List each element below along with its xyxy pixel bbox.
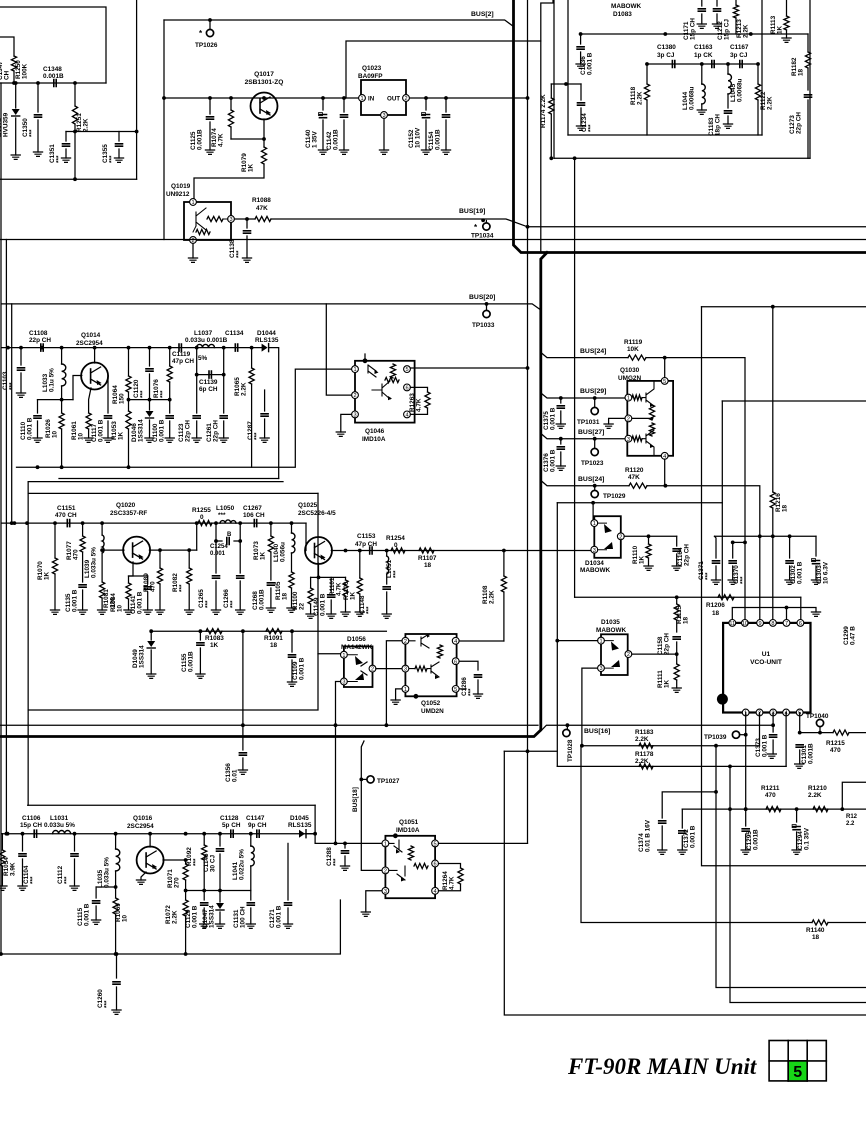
- capacitor C1350: [37, 83, 39, 112]
- svg-text:C1128: C1128: [220, 815, 239, 822]
- capacitor C1375: [560, 398, 562, 403]
- capacitor C1371: [715, 536, 717, 558]
- wire Q1014 emitter: [89, 388, 91, 413]
- svg-text:RLS135: RLS135: [288, 822, 312, 829]
- wire node rail y83: [0, 82, 106, 84]
- wire row2 box left edge: [27, 482, 29, 806]
- wire BUS[2]: [164, 20, 514, 27]
- svg-text:0: 0: [394, 542, 398, 549]
- wire row2 box: [28, 492, 318, 494]
- capacitor C1266: [239, 541, 241, 573]
- ground Q1046: [336, 432, 345, 436]
- svg-text:3: 3: [384, 889, 387, 895]
- svg-text:***: ***: [9, 382, 16, 390]
- svg-text:***: ***: [333, 858, 340, 866]
- wire C1139 bypass: [197, 348, 224, 375]
- svg-text:L1050: L1050: [216, 505, 235, 512]
- svg-text:10: 10: [742, 621, 748, 627]
- wire x557 vertical: [556, 503, 558, 767]
- resistor R1211 series: [766, 807, 781, 812]
- test point TP1029: [593, 484, 597, 488]
- svg-text:0.001 B: 0.001 B: [550, 449, 557, 472]
- svg-text:BA09FP: BA09FP: [358, 73, 383, 80]
- svg-text:***: ***: [193, 858, 200, 866]
- wire x730 vertical: [730, 766, 866, 1002]
- svg-text:6: 6: [799, 621, 802, 627]
- svg-text:1: 1: [353, 367, 356, 373]
- pin 8 U1: [770, 620, 777, 627]
- wire top bracket x541: [541, 0, 553, 41]
- svg-text:2.2: 2.2: [846, 821, 855, 827]
- capacitor C1108: [41, 344, 43, 351]
- svg-text:15p CH: 15p CH: [20, 822, 42, 829]
- wire inside Q1030: [632, 417, 652, 419]
- wire R1178 line: [557, 765, 786, 767]
- svg-text:R1088: R1088: [252, 197, 271, 204]
- capacitor C1236: [580, 34, 582, 44]
- wire caps cluster rail y536: [715, 535, 817, 537]
- svg-text:0.001 B: 0.001 B: [98, 419, 105, 442]
- capacitor C1376: [560, 439, 562, 444]
- svg-text:TP1023: TP1023: [581, 460, 604, 467]
- wire D1034 right branch: [624, 535, 677, 537]
- diodes inside D1035: [604, 641, 613, 669]
- wire D1035 pin3 column: [582, 668, 601, 746]
- ground Q1051 pin3: [361, 912, 370, 916]
- svg-text:0.033u 5%: 0.033u 5%: [104, 857, 111, 888]
- wire pin5 column: [799, 713, 801, 733]
- svg-text:1K: 1K: [639, 555, 646, 564]
- svg-text:BUS[19]: BUS[19]: [459, 208, 485, 215]
- wire BUS[24] lower: [542, 481, 630, 486]
- resistor R1115: [676, 597, 678, 604]
- svg-text:D1044: D1044: [257, 330, 276, 337]
- pin 11 U1: [729, 620, 736, 627]
- ground C1374: [658, 850, 667, 854]
- svg-text:OUT: OUT: [387, 96, 400, 103]
- svg-text:***: ***: [366, 606, 373, 614]
- wire BUS[19]: [271, 219, 866, 227]
- svg-text:5: 5: [454, 687, 457, 693]
- svg-text:5: 5: [793, 1064, 802, 1081]
- wire Q1016 emitter ground: [141, 872, 146, 880]
- ground L1044: [697, 110, 706, 114]
- pin 4 U1: [783, 709, 790, 716]
- svg-text:18: 18: [270, 642, 278, 649]
- wire vertical x702: [702, 307, 866, 866]
- pin 10 U1: [742, 620, 749, 627]
- resistor inside Q1030 b: [632, 436, 642, 441]
- svg-text:4: 4: [454, 639, 457, 645]
- svg-text:B: B: [227, 532, 232, 538]
- svg-text:1K: 1K: [777, 25, 784, 34]
- wire thick bus vertical and bottom: [0, 253, 547, 737]
- svg-text:5p CH: 5p CH: [222, 822, 241, 829]
- resistor R1255: [198, 521, 212, 526]
- resistor R1077: [82, 523, 84, 536]
- wire x580 vertical to R1140: [581, 746, 812, 923]
- svg-text:0.056u: 0.056u: [280, 542, 287, 562]
- wire D1034 pin1 up: [592, 503, 594, 520]
- ground C1149: [327, 614, 336, 618]
- capacitor C1149: [330, 577, 332, 592]
- svg-text:***: ***: [30, 876, 37, 884]
- svg-text:470 CH: 470 CH: [55, 512, 77, 519]
- svg-text:0.001B: 0.001B: [435, 129, 442, 150]
- svg-text:Q1025: Q1025: [298, 502, 318, 509]
- wire Q1051 pin3 ground: [366, 891, 382, 912]
- capacitor C1151: [67, 520, 69, 527]
- svg-text:1K: 1K: [118, 431, 125, 440]
- svg-text:TP1028: TP1028: [567, 739, 574, 762]
- wire Q1052 pin6 to C1286: [459, 661, 478, 670]
- svg-text:0.1u 5%: 0.1u 5%: [49, 368, 56, 392]
- resistor inside Q1030 a: [632, 395, 642, 400]
- svg-text:22p CH: 22p CH: [29, 337, 51, 344]
- svg-text:***: ***: [254, 432, 261, 440]
- svg-text:C1106: C1106: [22, 815, 41, 822]
- resistor R1069: [113, 898, 118, 914]
- svg-text:1p CK: 1p CK: [694, 52, 713, 59]
- svg-text:CH: CH: [4, 70, 11, 80]
- ground C1152: [421, 150, 430, 154]
- wire caps row y64: [647, 63, 758, 65]
- svg-text:0.1 35V: 0.1 35V: [804, 827, 811, 850]
- resistor R1111: [676, 654, 678, 664]
- wire to Q1019: [194, 164, 264, 199]
- wire node y131 link: [66, 131, 137, 133]
- svg-text:2: 2: [627, 417, 630, 423]
- ground Q1052 pin1: [391, 700, 400, 704]
- svg-text:D1045: D1045: [290, 815, 309, 822]
- wire Q1046 pin3 ground: [341, 414, 352, 432]
- svg-text:3: 3: [593, 548, 596, 554]
- resistor inside Q1030 c: [649, 405, 654, 420]
- wire Q1016 collector: [163, 859, 186, 861]
- wire Q1030 pin4 down: [664, 459, 666, 486]
- resistor R1082: [188, 550, 190, 568]
- svg-text:5: 5: [434, 842, 437, 848]
- svg-text:Q1052: Q1052: [421, 700, 441, 707]
- svg-text:***: ***: [140, 390, 147, 398]
- inductor L1045: [727, 64, 729, 74]
- svg-text:18: 18: [282, 592, 289, 600]
- resistor R1263 loop: [410, 387, 427, 392]
- svg-text:R12: R12: [846, 814, 858, 820]
- wire R1120 to pin9 column: [647, 486, 760, 623]
- wire Q1020 collector rail: [149, 549, 196, 551]
- ground C1375: [556, 424, 565, 428]
- capacitor C1374: [659, 821, 666, 823]
- wire top-left box outline: [0, 7, 106, 83]
- diode D1046: [149, 400, 151, 410]
- wire Q1052 pin2 feed: [386, 641, 402, 725]
- svg-text:6: 6: [405, 386, 408, 392]
- wire Q1017 emitter node: [231, 138, 264, 140]
- ground C1271: [283, 924, 292, 928]
- sheet index active cell 5: [788, 1061, 807, 1081]
- svg-text:0.001 B: 0.001 B: [299, 657, 306, 680]
- wire D1044 to lower rail: [269, 348, 279, 479]
- ground C1288: [340, 866, 349, 870]
- sheet index grid: [769, 1041, 826, 1082]
- svg-text:4.7K: 4.7K: [218, 133, 225, 147]
- capacitor C1119 series: [179, 344, 181, 351]
- inductor L1033: [61, 348, 63, 364]
- capacitor C1268: [267, 583, 274, 585]
- capacitor C1112: [74, 834, 76, 851]
- ground C1103: [16, 393, 25, 397]
- resistor R1073: [270, 523, 272, 536]
- svg-text:C1134: C1134: [225, 330, 244, 337]
- svg-text:***: ***: [64, 876, 71, 884]
- diode D1049: [150, 631, 152, 640]
- capacitor C1348: [54, 80, 56, 87]
- resistor R1206 series: [718, 595, 734, 600]
- svg-text:R1210: R1210: [808, 785, 827, 792]
- svg-text:C1254: C1254: [210, 544, 228, 550]
- svg-text:Q1020: Q1020: [116, 502, 136, 509]
- ground R1081: [98, 610, 107, 614]
- svg-text:18: 18: [683, 616, 690, 624]
- svg-text:MABOWK: MABOWK: [580, 567, 611, 574]
- wire pin3 column C1373: [772, 713, 774, 733]
- wire BUS20 to Q1046 pin2: [326, 304, 351, 395]
- wire BUS[27]: [542, 434, 625, 439]
- ground R1111: [672, 688, 681, 692]
- capacitor C1261: [223, 375, 225, 413]
- svg-text:C1167: C1167: [730, 44, 749, 51]
- capacitor C1104: [22, 834, 24, 851]
- svg-text:BUS[29]: BUS[29]: [580, 388, 606, 395]
- svg-text:1K: 1K: [260, 551, 267, 560]
- svg-text:9p CH: 9p CH: [248, 822, 267, 829]
- svg-text:Q1017: Q1017: [254, 71, 274, 78]
- wire left vertical 3: [11, 304, 13, 523]
- svg-text:18: 18: [812, 934, 820, 941]
- test point TP1033: [486, 304, 488, 310]
- inductor L1035: [115, 834, 117, 849]
- svg-text:1K: 1K: [664, 679, 671, 688]
- resistor inside Q1046 b: [385, 377, 399, 382]
- resistor R1106: [359, 551, 361, 579]
- svg-text:5: 5: [663, 379, 666, 385]
- svg-text:TP1029: TP1029: [603, 493, 626, 500]
- ground C1268: [266, 608, 275, 612]
- ground D1047: [215, 924, 224, 928]
- test point TP1027: [359, 778, 363, 782]
- svg-text:***: ***: [230, 600, 237, 608]
- capacitor C1115: [95, 887, 97, 898]
- svg-text:2: 2: [404, 639, 407, 645]
- svg-text:10: 10: [52, 430, 59, 438]
- svg-text:FT-90R MAIN Unit: FT-90R MAIN Unit: [567, 1054, 757, 1079]
- svg-text:C1151: C1151: [57, 505, 76, 512]
- resistor R1084: [126, 583, 131, 599]
- wire C1115 branch: [96, 886, 116, 888]
- capacitor C1158: [673, 637, 680, 639]
- capacitor C1380: [672, 61, 674, 68]
- svg-text:2.2K: 2.2K: [635, 758, 649, 765]
- svg-text:11: 11: [729, 621, 735, 627]
- wire from block bottom to trunk: [574, 158, 576, 597]
- svg-text:R1119: R1119: [624, 339, 643, 346]
- svg-text:R1183: R1183: [635, 729, 654, 736]
- svg-text:0.033u 0.001B: 0.033u 0.001B: [185, 337, 228, 344]
- svg-text:Q1023: Q1023: [362, 65, 382, 72]
- wire row1 lower rail: [17, 369, 353, 467]
- capacitor C1146: [219, 834, 221, 846]
- wire box rail y805: [28, 804, 315, 806]
- wire Q1014 base link: [73, 376, 82, 400]
- capacitor C1288: [344, 843, 346, 848]
- svg-text:IMD10A: IMD10A: [396, 827, 420, 834]
- ground C1135: [78, 610, 87, 614]
- ground C1183: [723, 124, 732, 128]
- svg-text:0.001B: 0.001B: [333, 129, 340, 150]
- capacitor C1356: [239, 753, 246, 755]
- svg-text:2.2K: 2.2K: [743, 24, 750, 38]
- svg-text:470: 470: [765, 792, 776, 799]
- ground Q1019: [188, 258, 197, 262]
- svg-text:10: 10: [78, 432, 85, 440]
- capacitor C1152: [425, 98, 427, 110]
- svg-text:3p CJ: 3p CJ: [730, 52, 748, 59]
- capacitor C1171: [701, 0, 703, 6]
- wire D1056 to Q1052: [376, 668, 402, 670]
- inductor L1031 series: [53, 831, 71, 834]
- resistor R1122: [757, 64, 759, 84]
- svg-text:1K: 1K: [210, 642, 219, 649]
- pin 3 U1: [770, 709, 777, 716]
- svg-text:0.033u 5%: 0.033u 5%: [91, 547, 98, 578]
- wire C1374 branch: [662, 746, 716, 818]
- wire Q1030 pin5 up: [664, 358, 666, 378]
- svg-text:C1139: C1139: [199, 379, 218, 386]
- svg-text:3: 3: [342, 680, 345, 686]
- svg-text:TP1039: TP1039: [704, 734, 727, 741]
- svg-text:1: 1: [191, 200, 194, 206]
- ground C1140: [318, 150, 327, 154]
- diode D1044: [262, 344, 268, 352]
- svg-text:22p CH: 22p CH: [796, 112, 803, 134]
- capacitor C1140: [322, 98, 324, 110]
- ground C1261: [219, 438, 228, 442]
- svg-text:5%: 5%: [198, 355, 208, 362]
- capacitor C1295: [745, 809, 747, 826]
- svg-text:6: 6: [434, 862, 437, 868]
- svg-text:2.2K: 2.2K: [767, 96, 774, 110]
- transistors inside Q1046: [368, 365, 390, 399]
- svg-text:D1035: D1035: [601, 619, 620, 626]
- svg-text:L1037: L1037: [194, 330, 213, 337]
- resistor R1070: [54, 523, 56, 558]
- wire y399 node: [38, 399, 74, 401]
- svg-text:2.2K: 2.2K: [172, 910, 179, 924]
- pin 9 U1: [757, 620, 764, 627]
- ground C1236: [576, 64, 585, 68]
- capacitor C1301: [796, 745, 803, 747]
- resistor R1110: [648, 536, 650, 544]
- wire bottom link y179: [0, 178, 137, 180]
- capacitor C1141: [147, 576, 149, 584]
- ground C1266: [236, 610, 245, 614]
- svg-text:2.2K: 2.2K: [83, 118, 90, 132]
- svg-text:R1091: R1091: [264, 635, 283, 642]
- svg-text:Q1014: Q1014: [81, 332, 101, 339]
- capacitor C1135: [79, 585, 86, 587]
- svg-text:0.001 B: 0.001 B: [27, 417, 34, 440]
- wire Q1019 gnd: [192, 243, 194, 258]
- resistor R1108: [503, 551, 505, 577]
- inductor L1037 series: [197, 344, 215, 347]
- svg-text:106 CH: 106 CH: [243, 512, 265, 519]
- resistor inside Q1046 a: [390, 364, 395, 378]
- resistor R1251: [74, 83, 76, 106]
- svg-text:18p CH: 18p CH: [715, 114, 722, 136]
- resistor R1076: [169, 348, 171, 366]
- ground C1371: [711, 580, 720, 584]
- inductor L1051: [386, 551, 388, 557]
- svg-text:1: 1: [384, 842, 387, 848]
- svg-text:0.001B: 0.001B: [43, 73, 64, 80]
- svg-text:R1174 2.2K: R1174 2.2K: [540, 94, 547, 128]
- svg-text:***: ***: [468, 688, 475, 696]
- diode array D1034 MABOWK: [594, 516, 621, 558]
- wire rail y34 in block: [581, 33, 808, 35]
- transistor array Q1046 IMD10A: [355, 361, 415, 423]
- capacitor C1254 bypass: [216, 523, 222, 541]
- wire top-right outer box: [553, 0, 555, 158]
- svg-text:1: 1: [404, 687, 407, 693]
- svg-text:***: ***: [179, 584, 186, 592]
- diode D1045: [299, 830, 305, 838]
- resistor R1215 series: [833, 730, 849, 735]
- resistor R1216: [770, 492, 775, 508]
- svg-text:10 6.3V: 10 6.3V: [823, 561, 830, 584]
- wire right rail y306: [702, 306, 866, 308]
- wire full-width line y239: [0, 239, 866, 241]
- svg-text:3: 3: [627, 437, 630, 443]
- svg-text:4.7K: 4.7K: [336, 582, 343, 596]
- svg-text:18: 18: [712, 610, 720, 617]
- svg-text:1: 1: [360, 96, 363, 102]
- svg-text:18: 18: [782, 504, 789, 512]
- capacitor C1103: [20, 348, 22, 365]
- svg-text:2: 2: [619, 534, 622, 540]
- resistor R1254 series: [391, 548, 405, 553]
- svg-text:D1034: D1034: [585, 560, 604, 567]
- ground C1376: [556, 466, 565, 470]
- wire x716 lower vertical: [716, 792, 866, 988]
- wire y607 rail: [732, 608, 816, 623]
- svg-text:0.001 B: 0.001 B: [276, 905, 283, 928]
- svg-text:2: 2: [384, 869, 387, 875]
- wire R1183 line: [582, 745, 760, 747]
- transistors inside Q1051: [389, 840, 405, 880]
- svg-text:IMD10A: IMD10A: [362, 436, 386, 443]
- svg-text:***: ***: [104, 1000, 111, 1008]
- svg-text:1: 1: [599, 639, 602, 645]
- svg-text:***: ***: [393, 570, 400, 578]
- ground D1078: [11, 155, 20, 159]
- ground Q1016: [136, 880, 145, 884]
- svg-text:0.01: 0.01: [232, 769, 239, 782]
- svg-text:30 CJ: 30 CJ: [210, 855, 217, 872]
- svg-text:C1267: C1267: [243, 505, 262, 512]
- svg-text:270: 270: [174, 877, 181, 888]
- ground C1295: [741, 850, 750, 854]
